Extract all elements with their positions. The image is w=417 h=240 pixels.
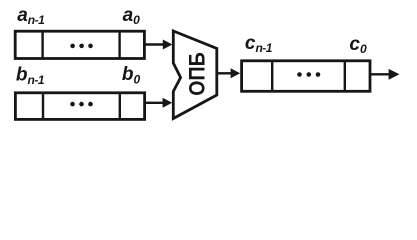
svg-text:c0: c0	[349, 34, 367, 56]
ellipsis dots in register B	[70, 102, 93, 107]
register A (operand a shift register)	[15, 31, 144, 58]
output wire from register C	[371, 69, 399, 80]
svg-text:a0: a0	[123, 5, 141, 27]
svg-text:b0: b0	[122, 64, 141, 86]
register B (operand b shift register)	[15, 93, 144, 120]
wire register B to OPB input	[145, 98, 172, 108]
register C (result shift register)	[242, 61, 370, 92]
ellipsis dots in register A	[70, 44, 93, 49]
svg-text:cn-1: cn-1	[245, 33, 273, 55]
wire register A to OPB input	[145, 40, 173, 50]
svg-text:ОПБ: ОПБ	[185, 52, 210, 96]
wire OPB output to register C	[218, 68, 240, 78]
ellipsis dots in register C	[297, 72, 320, 77]
svg-text:an-1: an-1	[17, 5, 45, 27]
svg-text:bn-1: bn-1	[16, 65, 45, 87]
op-amp style ALU block OPB	[173, 31, 217, 119]
